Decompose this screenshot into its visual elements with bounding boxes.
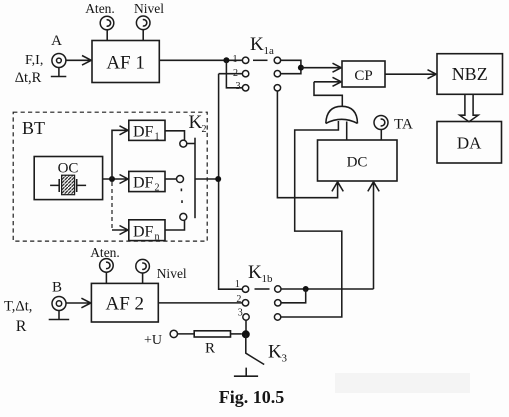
svg-text:2: 2 (155, 183, 160, 194)
svg-text:Aten.: Aten. (85, 1, 115, 16)
svg-text:F,I,: F,I, (25, 53, 43, 68)
svg-text:R: R (16, 318, 27, 335)
svg-text:+U: +U (144, 333, 162, 348)
svg-text:K: K (268, 342, 282, 363)
svg-text:OC: OC (58, 161, 79, 177)
svg-text:2: 2 (202, 124, 207, 135)
svg-text:DF: DF (133, 224, 154, 241)
svg-text:B: B (52, 280, 62, 296)
svg-text:1a: 1a (264, 45, 275, 57)
svg-text:3: 3 (236, 81, 241, 92)
svg-text:K: K (189, 112, 203, 133)
svg-text:1b: 1b (262, 273, 274, 285)
svg-text:DF: DF (133, 175, 154, 192)
svg-text:Nivel: Nivel (134, 1, 164, 16)
svg-text:1: 1 (235, 279, 240, 290)
svg-text:Nivel: Nivel (157, 266, 187, 281)
svg-text:R: R (205, 341, 215, 357)
svg-text:DC: DC (347, 155, 368, 171)
svg-text:Δt,R: Δt,R (15, 70, 42, 86)
svg-text:K: K (250, 34, 264, 55)
svg-text:1: 1 (233, 54, 238, 65)
svg-text:BT: BT (22, 118, 45, 138)
svg-text:DA: DA (457, 134, 482, 153)
svg-text:Fig. 10.5: Fig. 10.5 (219, 387, 285, 407)
svg-text:TA: TA (394, 117, 413, 133)
svg-text:n: n (155, 232, 160, 243)
svg-text:NBZ: NBZ (452, 64, 488, 84)
svg-text:2: 2 (236, 294, 241, 305)
svg-text:1: 1 (155, 132, 160, 143)
svg-text:A: A (51, 33, 62, 49)
svg-text:3: 3 (238, 308, 243, 319)
svg-text:CP: CP (354, 68, 372, 84)
svg-text:T,Δt,: T,Δt, (4, 299, 32, 315)
svg-text:3: 3 (282, 353, 288, 365)
svg-text:AF 2: AF 2 (106, 294, 145, 315)
svg-text:AF 1: AF 1 (106, 53, 145, 74)
svg-text:K: K (248, 262, 262, 283)
svg-text:Aten.: Aten. (90, 245, 120, 260)
svg-text:DF: DF (133, 124, 154, 141)
